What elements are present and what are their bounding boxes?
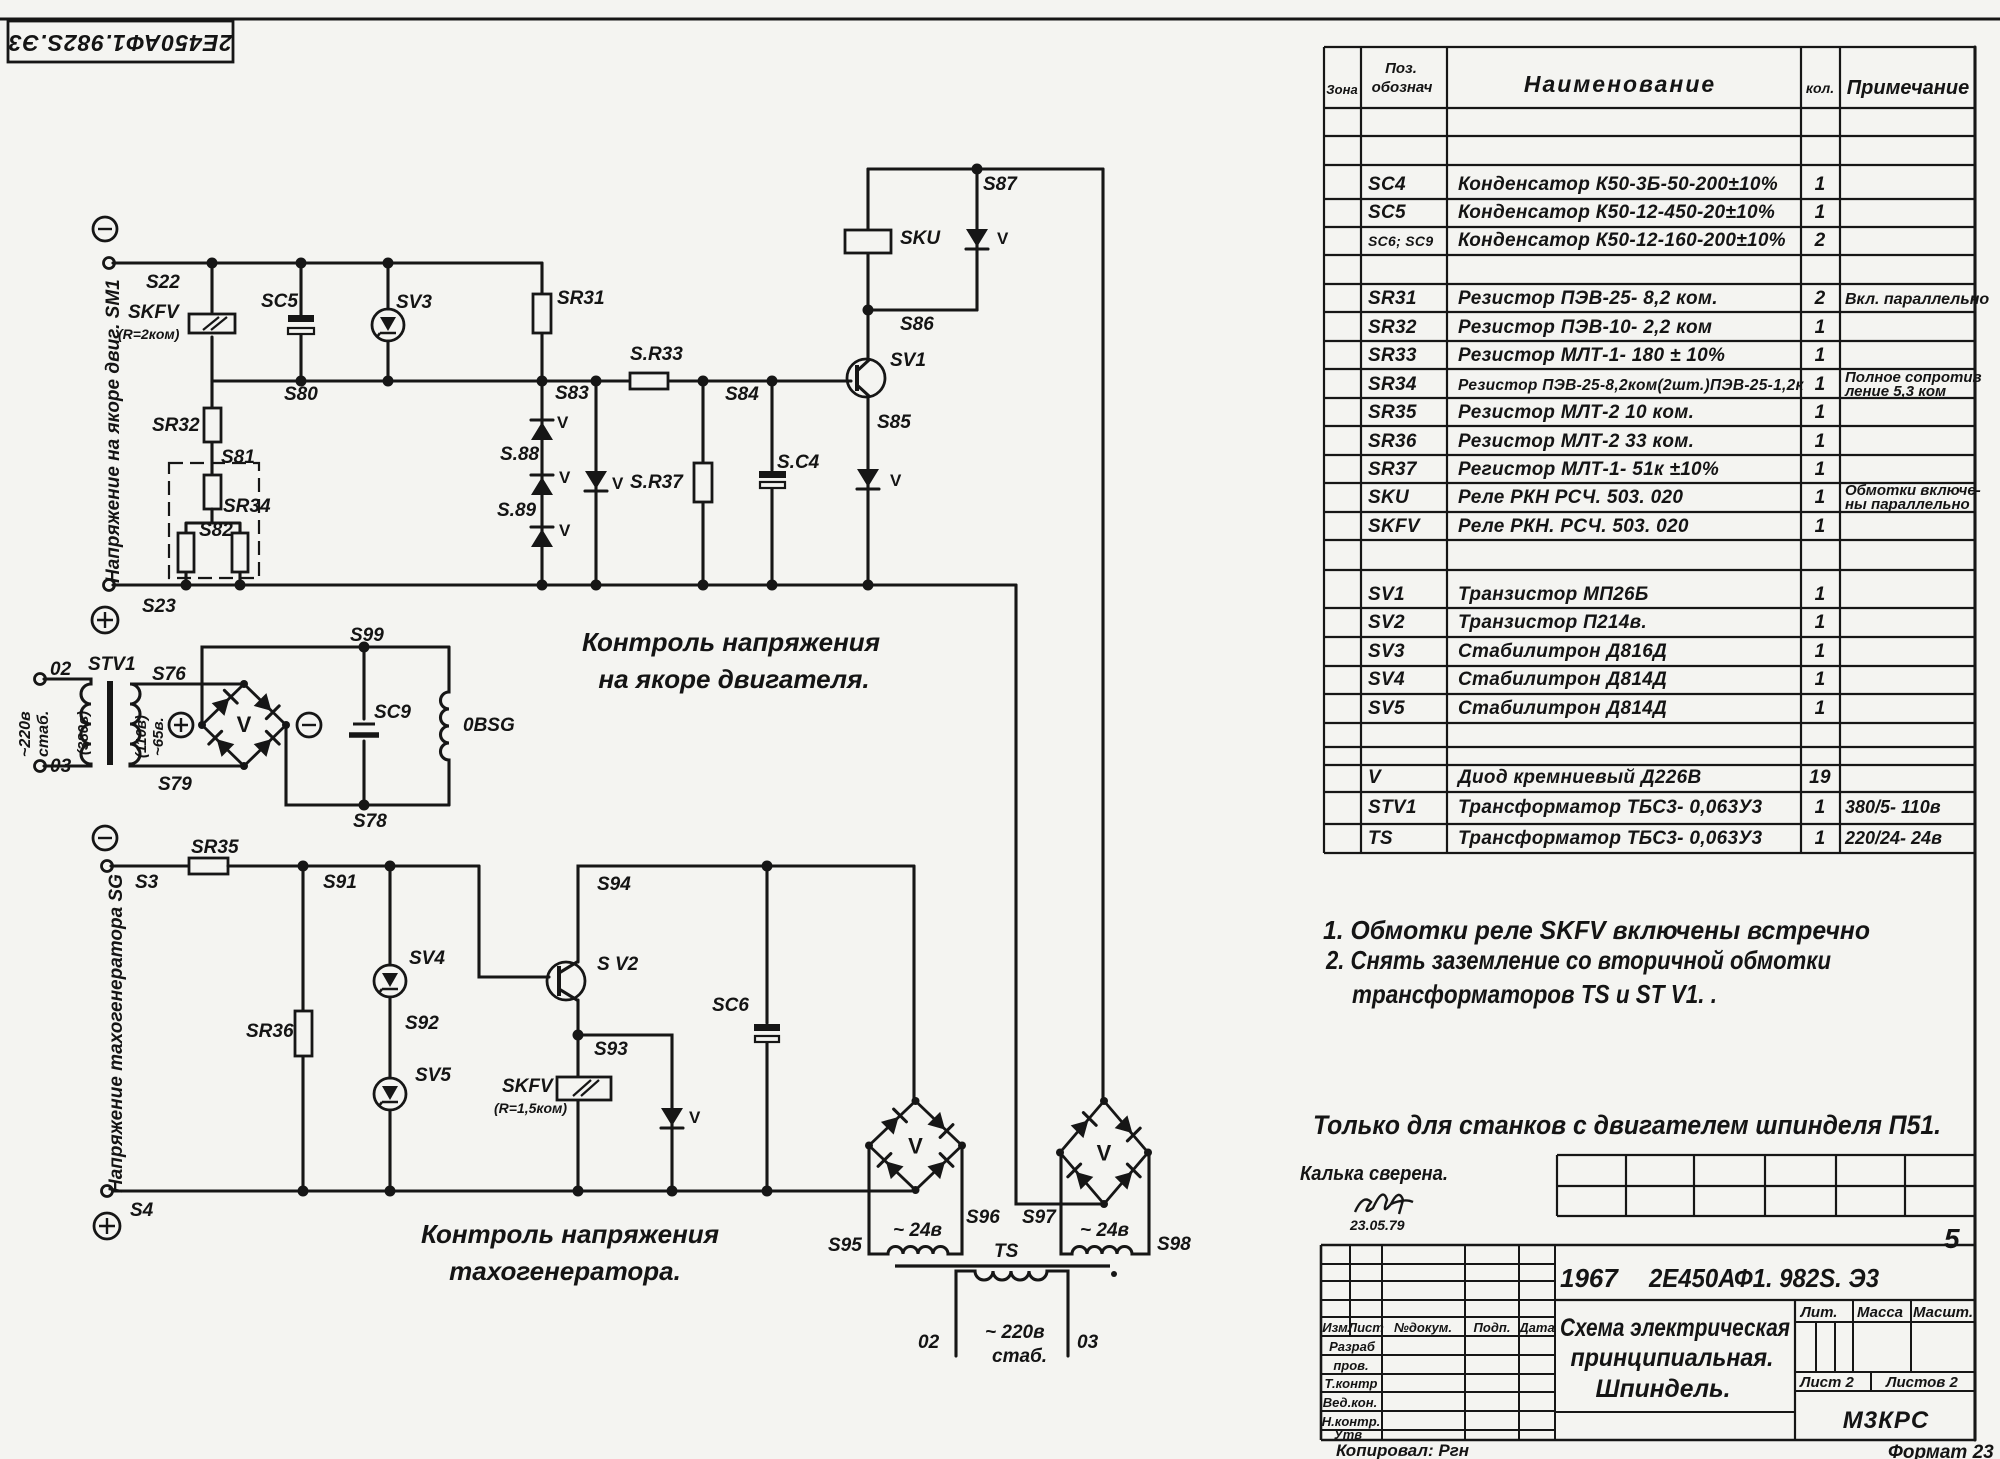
svg-text:V: V: [559, 521, 571, 540]
svg-text:Копировал: Ргн: Копировал: Ргн: [1336, 1441, 1469, 1459]
wire emitter SV1 down: [857, 396, 911, 585]
svg-text:V: V: [890, 471, 902, 490]
svg-text:S76: S76: [152, 664, 186, 685]
svg-text:2: 2: [1814, 288, 1826, 309]
zener SV4: [374, 866, 445, 1078]
svg-text:SKFV: SKFV: [502, 1076, 554, 1097]
svg-text:Калька сверена.: Калька сверена.: [1300, 1163, 1448, 1185]
svg-text:V: V: [557, 413, 569, 432]
resistor SR37: [630, 381, 712, 585]
svg-text:1: 1: [1815, 516, 1826, 537]
svg-text:S3: S3: [135, 872, 159, 893]
zener SV3: [372, 263, 432, 381]
transformer TS primary: [918, 1271, 1099, 1367]
svg-text:трансформаторов TS и ST V1.: трансформаторов TS и ST V1. .: [1352, 979, 1717, 1009]
bridge rectifier V2: [865, 1097, 966, 1194]
resistor SR35: [111, 837, 239, 874]
svg-text:2. Снять заземление со втор: 2. Снять заземление со вторичной обмотки: [1325, 945, 1831, 975]
svg-text:Резистор МЛТ-1- 180 ± 10%: Резистор МЛТ-1- 180 ± 10%: [1458, 345, 1725, 366]
svg-text:S78: S78: [353, 811, 387, 832]
svg-text:(R=1,5ком): (R=1,5ком): [494, 1100, 567, 1116]
svg-text:1: 1: [1815, 797, 1826, 818]
signature: [1355, 1195, 1413, 1214]
svg-text:Зона: Зона: [1326, 82, 1357, 97]
svg-text:1: 1: [1815, 584, 1826, 605]
note 2 line 2: [1352, 979, 1717, 1009]
svg-text:Стабилитрон Д814Д: Стабилитрон Д814Д: [1458, 669, 1667, 690]
diode V at SKU: [966, 169, 1009, 310]
svg-text:~ 220в: ~ 220в: [985, 1322, 1045, 1343]
svg-text:V: V: [612, 474, 624, 493]
svg-text:Стабилитрон Д816Д: Стабилитрон Д816Д: [1458, 641, 1667, 662]
svg-text:1: 1: [1815, 402, 1826, 423]
svg-text:SC4: SC4: [1368, 174, 1406, 195]
note 1: [1323, 915, 1870, 945]
svg-text:стаб.: стаб.: [992, 1346, 1047, 1367]
svg-text:Резистор МЛТ-2 33 ком.: Резистор МЛТ-2 33 ком.: [1458, 431, 1694, 452]
svg-text:Контроль напряжения: Контроль напряжения: [582, 627, 880, 657]
svg-text:Резистор ПЭВ-25- 8,2 ком.: Резистор ПЭВ-25- 8,2 ком.: [1458, 288, 1718, 309]
minus symbol bridge: [297, 713, 321, 737]
svg-text:S85: S85: [877, 412, 911, 433]
svg-text:Дата: Дата: [1518, 1320, 1554, 1335]
relay SKFV: [118, 263, 235, 381]
bridge rectifier V1: [198, 680, 290, 770]
svg-text:2Е450АФ1. 982S. Э3: 2Е450АФ1. 982S. Э3: [1648, 1263, 1879, 1293]
svg-text:(R=2ком): (R=2ком): [118, 326, 180, 342]
svg-text:Контроль напряжения: Контроль напряжения: [421, 1219, 719, 1249]
lit massa masht: [1799, 1304, 1973, 1391]
svg-text:1: 1: [1815, 828, 1826, 849]
svg-text:2Е450АФ1.982S.Э3: 2Е450АФ1.982S.Э3: [8, 30, 233, 56]
svg-text:SR35: SR35: [191, 837, 239, 858]
svg-text:Примечание: Примечание: [1847, 77, 1969, 99]
svg-text:220/24- 24в: 220/24- 24в: [1844, 828, 1942, 848]
svg-text:SR36: SR36: [1368, 431, 1417, 452]
svg-text:Конденсатор К50-3Б-50-200±10%: Конденсатор К50-3Б-50-200±10%: [1458, 174, 1778, 195]
kalka note: [1300, 1163, 1448, 1185]
inductor OBSG: [441, 647, 515, 805]
svg-text:Регистор МЛТ-1- 51к ±10%: Регистор МЛТ-1- 51к ±10%: [1458, 459, 1719, 480]
resistor SR32: [152, 381, 255, 475]
transistor SV2: [547, 954, 639, 1000]
svg-text:Вкл. параллельно: Вкл. параллельно: [1845, 291, 1989, 308]
caption tach control: [421, 1219, 719, 1286]
transistor SV1: [847, 350, 926, 397]
resistor SR33: [630, 344, 683, 389]
wire bottom rail top circuit: [113, 580, 1016, 591]
svg-text:V: V: [997, 229, 1009, 248]
title block grid: [1321, 1245, 1975, 1440]
capacitor SC4: [759, 381, 820, 585]
svg-text:SR32: SR32: [1368, 317, 1417, 338]
svg-text:SV1: SV1: [890, 350, 926, 371]
svg-text:SC5: SC5: [1368, 202, 1406, 223]
svg-text:2: 2: [1814, 230, 1826, 251]
svg-text:S99: S99: [350, 625, 384, 646]
schema title: [1560, 1314, 1790, 1403]
svg-text:S80: S80: [284, 384, 318, 405]
svg-text:Резистор МЛТ-2 10 ком.: Резистор МЛТ-2 10 ком.: [1458, 402, 1694, 423]
terminal 03: [35, 756, 72, 777]
bridge rectifier V3: [1056, 1097, 1152, 1208]
svg-text:S92: S92: [405, 1013, 439, 1034]
transformer STV1 core: [107, 681, 113, 765]
svg-text:Формат 23: Формат 23: [1888, 1442, 1994, 1459]
terminal minus symbol top: [93, 217, 117, 241]
svg-text:Разраб: Разраб: [1329, 1339, 1376, 1354]
svg-text:Напряжение на якоре двиг. SМ: Напряжение на якоре двиг. SМ1: [103, 279, 124, 583]
svg-text:S.89: S.89: [497, 500, 537, 521]
svg-text:~ 24в: ~ 24в: [893, 1220, 942, 1241]
note P51: [1313, 1110, 1941, 1140]
svg-text:S95: S95: [828, 1235, 862, 1256]
resistors S82 pair: [178, 509, 248, 585]
svg-text:тахогенератора.: тахогенератора.: [449, 1256, 681, 1286]
svg-text:S97: S97: [1022, 1207, 1057, 1228]
svg-text:S.R37: S.R37: [630, 472, 684, 493]
wire from bottom rail to bridge B3: [1016, 585, 1104, 1204]
svg-text:1: 1: [1815, 317, 1826, 338]
svg-text:принципиальная.: принципиальная.: [1571, 1344, 1774, 1372]
svg-text:SV5: SV5: [415, 1065, 451, 1086]
svg-text:Резистор ПЭВ-25-8,2ком(2шт.): Резистор ПЭВ-25-8,2ком(2шт.)ПЭВ-25-1,2к: [1458, 377, 1805, 394]
winding 24v right: [1022, 1152, 1191, 1255]
svg-text:S94: S94: [597, 874, 631, 895]
svg-text:кол.: кол.: [1806, 80, 1834, 96]
svg-text:М3КРС: М3КРС: [1843, 1407, 1929, 1434]
svg-text:на якоре двигателя.: на якоре двигателя.: [598, 664, 869, 694]
parts table header: [1326, 60, 1969, 99]
svg-text:Реле РКН. РСЧ. 503. 020: Реле РКН. РСЧ. 503. 020: [1458, 516, 1689, 537]
svg-text:V: V: [1368, 767, 1382, 788]
terminal S22: [104, 258, 181, 294]
svg-text:(380в): (380в): [75, 711, 92, 755]
svg-text:SC5: SC5: [261, 291, 298, 312]
svg-text:Масшт.: Масшт.: [1913, 1304, 1973, 1321]
resistor SR36: [246, 866, 312, 1191]
terminal S3: [102, 861, 159, 894]
svg-text:(110в): (110в): [133, 715, 150, 758]
kopiroval: [1336, 1441, 1469, 1459]
wire rail 2 S80: [212, 376, 851, 406]
svg-text:Трансформатор ТБС3- 0,063У3: Трансформатор ТБС3- 0,063У3: [1458, 828, 1763, 849]
svg-text:S93: S93: [594, 1039, 628, 1060]
svg-text:SV3: SV3: [1368, 641, 1405, 662]
svg-text:1: 1: [1815, 174, 1826, 195]
terminal 02: [35, 659, 72, 685]
svg-text:1: 1: [1815, 612, 1826, 633]
svg-text:SKFV: SKFV: [1368, 516, 1421, 537]
svg-text:1: 1: [1815, 698, 1826, 719]
svg-text:SR34: SR34: [223, 496, 271, 517]
wire tach top rail: [228, 861, 479, 894]
label Napryazhenie tahogeneratora: [106, 874, 127, 1193]
document number stamp (rotated): [8, 21, 233, 62]
terminal minus symbol tach: [93, 826, 117, 850]
svg-text:19: 19: [1809, 767, 1831, 788]
svg-text:TS: TS: [994, 1241, 1019, 1262]
svg-text:Резистор ПЭВ-10- 2,2 ком: Резистор ПЭВ-10- 2,2 ком: [1458, 317, 1712, 338]
svg-text:SV1: SV1: [1368, 584, 1405, 605]
svg-text:V: V: [237, 712, 252, 737]
drawing number: [1560, 1263, 1879, 1293]
svg-text:SKU: SKU: [1368, 487, 1410, 508]
svg-text:STV1: STV1: [1368, 797, 1417, 818]
parts list table grid: [1324, 47, 1975, 853]
diode V branch: [585, 381, 624, 585]
capacitor SC5: [261, 263, 314, 381]
svg-text:1967: 1967: [1560, 1263, 1619, 1293]
title block texts: [1322, 1320, 1555, 1442]
capacitor SC6: [712, 866, 780, 1191]
svg-text:1: 1: [1815, 202, 1826, 223]
sheet top border: [0, 17, 2000, 20]
svg-text:S96: S96: [966, 1207, 1000, 1228]
svg-text:1: 1: [1815, 431, 1826, 452]
relay SKFV tach: [494, 1035, 611, 1191]
svg-text:SR31: SR31: [557, 288, 605, 309]
plus symbol bridge: [169, 713, 193, 737]
svg-text:S23: S23: [142, 596, 176, 617]
label 110v 65v rotated: [133, 715, 167, 758]
svg-text:стаб.: стаб.: [35, 711, 52, 757]
svg-text:23.05.79: 23.05.79: [1349, 1217, 1405, 1233]
svg-text:1: 1: [1815, 459, 1826, 480]
svg-text:Наименование: Наименование: [1524, 71, 1716, 97]
wire tach bottom rail: [111, 1186, 911, 1197]
svg-text:Диод кремниевый Д226В: Диод кремниевый Д226В: [1456, 767, 1702, 788]
svg-text:Схема электрическая: Схема электрическая: [1560, 1314, 1790, 1342]
resistor SR34: [199, 475, 271, 541]
svg-text:Поз.: Поз.: [1385, 60, 1417, 77]
sheet right border: [1973, 47, 1976, 1440]
note 2: [1325, 945, 1831, 975]
wire S86: [863, 305, 978, 336]
svg-text:SR35: SR35: [1368, 402, 1417, 423]
svg-text:1. Обмотки реле SKFV включен: 1. Обмотки реле SKFV включены встречно: [1323, 915, 1870, 945]
svg-text:Масса: Масса: [1857, 1304, 1903, 1321]
svg-text:Конденсатор К50-12-160-200±10: Конденсатор К50-12-160-200±10%: [1458, 230, 1786, 251]
svg-text:5: 5: [1944, 1223, 1960, 1254]
svg-text:S22: S22: [146, 272, 180, 293]
svg-text:S91: S91: [323, 872, 357, 893]
svg-text:V: V: [908, 1134, 923, 1159]
svg-text:03: 03: [1077, 1332, 1099, 1353]
svg-text:S.C4: S.C4: [777, 452, 820, 473]
svg-text:Трансформатор ТБС3- 0,063У3: Трансформатор ТБС3- 0,063У3: [1458, 797, 1763, 818]
wire top rail S22: [113, 258, 542, 269]
svg-text:V: V: [689, 1108, 701, 1127]
revision strip table: [1557, 1155, 1975, 1216]
svg-text:S V2: S V2: [597, 954, 639, 975]
svg-text:обознач: обознач: [1372, 79, 1433, 96]
svg-text:0ВSG: 0ВSG: [463, 715, 515, 736]
wire S94 rail: [578, 861, 914, 963]
caption armature control: [582, 627, 880, 694]
svg-text:Только для станков с двигат: Только для станков с двигателем шпинделя…: [1313, 1110, 1941, 1140]
svg-text:Стабилитрон Д814Д: Стабилитрон Д814Д: [1458, 698, 1667, 719]
svg-text:STV1: STV1: [88, 654, 136, 675]
svg-text:пров.: пров.: [1333, 1358, 1368, 1373]
svg-text:SR34: SR34: [1368, 374, 1417, 395]
svg-text:S98: S98: [1157, 1234, 1191, 1255]
svg-text:Лист 2: Лист 2: [1799, 1374, 1854, 1391]
svg-text:SR32: SR32: [152, 415, 200, 436]
wire S99 rail: [202, 625, 449, 725]
svg-text:SV3: SV3: [396, 292, 432, 313]
terminal S4: [102, 1186, 154, 1222]
node S84: [725, 384, 759, 405]
transformer TS core: [895, 1241, 1117, 1277]
svg-text:1: 1: [1815, 345, 1826, 366]
node S83: [555, 383, 589, 404]
svg-text:1: 1: [1815, 641, 1826, 662]
svg-text:S79: S79: [158, 774, 192, 795]
svg-text:02: 02: [50, 659, 72, 680]
svg-text:SV4: SV4: [1368, 669, 1405, 690]
svg-text:SR36: SR36: [246, 1021, 294, 1042]
wire to SV2 base: [479, 866, 549, 977]
svg-text:1: 1: [1815, 374, 1826, 395]
svg-text:S83: S83: [555, 383, 589, 404]
wire top rail S87: [868, 164, 1103, 196]
svg-text:Транзистор П214в.: Транзистор П214в.: [1458, 612, 1647, 633]
svg-text:SV2: SV2: [1368, 612, 1405, 633]
svg-text:S.R33: S.R33: [630, 344, 683, 365]
label 380v rotated: [75, 711, 92, 755]
diode chain S88 S89: [497, 381, 571, 585]
svg-text:Конденсатор К50-12-450-20±10%: Конденсатор К50-12-450-20±10%: [1458, 202, 1775, 223]
label Napryazhenie na yakore: [103, 279, 124, 583]
svg-text:S86: S86: [900, 314, 934, 335]
svg-text:380/5- 110в: 380/5- 110в: [1845, 797, 1941, 817]
date: [1349, 1217, 1405, 1233]
svg-text:~ 24в: ~ 24в: [1080, 1220, 1129, 1241]
svg-text:1: 1: [1815, 487, 1826, 508]
svg-text:Подп.: Подп.: [1474, 1320, 1511, 1335]
terminal plus symbol: [92, 607, 118, 633]
wire S78 rail: [286, 725, 449, 832]
relay SKU: [845, 169, 941, 310]
svg-text:Лист: Лист: [1347, 1320, 1384, 1335]
svg-text:Напряжение тахогенератора SG: Напряжение тахогенератора SG: [106, 874, 127, 1193]
svg-text:SR37: SR37: [1368, 459, 1418, 480]
svg-text:ление 5,3 ком: ление 5,3 ком: [1844, 383, 1946, 400]
svg-text:SR31: SR31: [1368, 288, 1417, 309]
svg-text:SKFV: SKFV: [128, 302, 180, 323]
svg-text:V: V: [1097, 1141, 1112, 1166]
svg-text:S81: S81: [221, 447, 255, 468]
format: [1888, 1442, 1994, 1459]
wire S94 to bridge V2: [912, 866, 915, 1101]
resistor SR31: [533, 263, 605, 381]
svg-text:V: V: [559, 468, 571, 487]
terminal S23: [104, 580, 177, 618]
svg-text:SC9: SC9: [374, 702, 411, 723]
svg-text:S84: S84: [725, 384, 759, 405]
svg-text:S.88: S.88: [500, 444, 540, 465]
svg-text:ны параллельно: ны параллельно: [1845, 496, 1970, 513]
svg-text:SV5: SV5: [1368, 698, 1405, 719]
svg-text:Изм: Изм: [1322, 1320, 1348, 1335]
svg-text:Шпиндель.: Шпиндель.: [1596, 1375, 1731, 1403]
page number 5: [1944, 1223, 1960, 1254]
svg-text:№докум.: №докум.: [1394, 1320, 1452, 1335]
factory code: [1843, 1407, 1929, 1434]
svg-text:~65в.: ~65в.: [150, 717, 167, 756]
dashed box SR34 group: [169, 463, 259, 578]
diode V tach branch: [578, 1035, 701, 1191]
svg-text:Реле РКН РСЧ. 503. 020: Реле РКН РСЧ. 503. 020: [1458, 487, 1683, 508]
transformer STV1 primary: [44, 679, 91, 766]
svg-text:Транзистор МП26Б: Транзистор МП26Б: [1458, 584, 1649, 605]
svg-text:1: 1: [1815, 669, 1826, 690]
node S93: [573, 1000, 629, 1060]
svg-text:S4: S4: [130, 1200, 154, 1221]
svg-text:TS: TS: [1368, 828, 1393, 849]
svg-text:SV4: SV4: [409, 948, 445, 969]
wire SV1 collector to S86: [866, 310, 869, 360]
wire long vertical right: [1101, 169, 1104, 1101]
svg-text:Утв: Утв: [1334, 1427, 1362, 1442]
zener SV5: [374, 1065, 451, 1191]
svg-text:S87: S87: [983, 174, 1018, 195]
svg-text:~220в: ~220в: [17, 711, 34, 757]
capacitor SC9: [349, 647, 411, 805]
svg-text:SKU: SKU: [900, 228, 941, 249]
label 220v stab rotated: [17, 711, 52, 757]
winding 24v left: [828, 1146, 1000, 1256]
svg-text:02: 02: [918, 1332, 940, 1353]
transformer STV1 secondary: [88, 654, 244, 795]
svg-text:SC6: SC6: [712, 995, 749, 1016]
svg-text:Т.контр: Т.контр: [1325, 1376, 1378, 1391]
terminal plus symbol tach: [94, 1213, 120, 1239]
svg-text:SR33: SR33: [1368, 345, 1417, 366]
svg-text:Листов 2: Листов 2: [1885, 1374, 1958, 1391]
svg-text:SC6; SC9: SC6; SC9: [1368, 233, 1433, 249]
svg-text:Лит.: Лит.: [1800, 1304, 1838, 1321]
parts table rows text: [1368, 174, 1989, 849]
svg-text:Вед.кон.: Вед.кон.: [1323, 1395, 1377, 1410]
